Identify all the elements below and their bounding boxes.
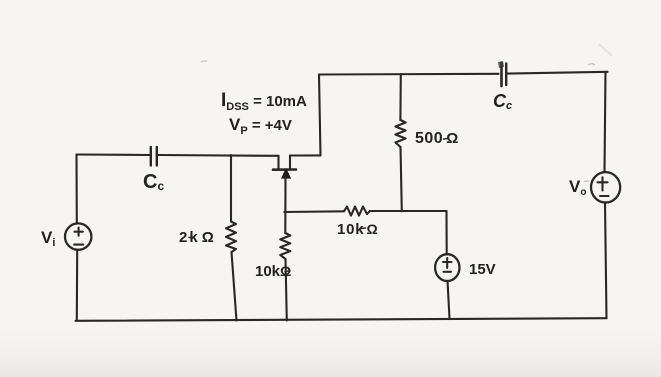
- wire: drain vertical to top rail: [319, 75, 321, 156]
- source V2 15V: [435, 254, 459, 281]
- svg-text:500Ω: 500Ω: [415, 130, 459, 147]
- svg-text:VP = +4V: VP = +4V: [229, 115, 292, 137]
- source Vo: [591, 172, 620, 202]
- svg-text:2kΩ: 2kΩ: [179, 229, 216, 246]
- wire: mid horizontal to 15V branch: [284, 211, 446, 212]
- wire: 15V branch vertical: [447, 211, 450, 318]
- resistor R1 2k: [226, 155, 237, 321]
- source Vi: [65, 223, 91, 249]
- transistor Q1 (JFET): [273, 155, 321, 178]
- wire: top rail: [319, 72, 608, 75]
- wire: Vi left vertical: [75, 155, 78, 321]
- capacitor Cc (output): [498, 61, 506, 86]
- svg-text:10kΩ: 10kΩ: [337, 221, 378, 238]
- wire: top-left horizontal (Vi top to gate, through Cc): [77, 155, 279, 156]
- faint shadow streak top right: [599, 44, 612, 56]
- wire: right vertical (top rail to Vo): [605, 72, 607, 318]
- handwriting dashes: [189, 139, 448, 272]
- wire: bottom rail: [76, 318, 607, 321]
- resistor R4 10k (horizontal): [344, 207, 370, 216]
- capacitor Cc (input): [151, 147, 157, 166]
- svg-text:15V: 15V: [469, 261, 496, 278]
- resistor R3 10k (source): [280, 233, 290, 321]
- smudge marks: [201, 61, 595, 182]
- resistor R2 500 ohm: [395, 74, 405, 211]
- wire: source vertical from JFET to mid node: [284, 178, 286, 233]
